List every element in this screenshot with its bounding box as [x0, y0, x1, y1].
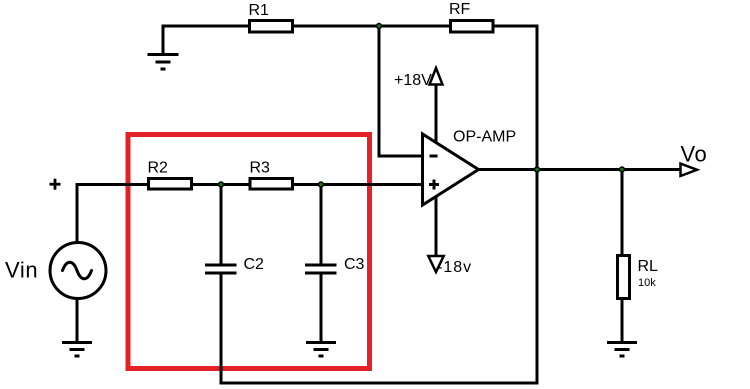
svg-text:RF: RF: [449, 1, 471, 18]
wire Vin top vertical: [76, 183, 79, 243]
wire top rail left: ground to R1: [163, 25, 249, 28]
wire node A down to C2 top plate: [220, 185, 223, 266]
svg-text:R2: R2: [148, 160, 169, 177]
wire C3 bottom to ground: [320, 274, 323, 342]
op-amp non-inverting input plus symbol: [429, 180, 439, 190]
wire positive supply vertical: [435, 84, 438, 143]
resistor R3: [250, 179, 293, 190]
wire input plus-corner to R2: [77, 183, 149, 186]
node RL junction: [620, 167, 625, 172]
wire RL bottom to ground: [621, 299, 624, 342]
svg-text:C2: C2: [244, 256, 265, 273]
resistor RL: [618, 256, 630, 299]
op-amp inverting input minus symbol: [430, 155, 438, 158]
svg-text:-18v: -18v: [437, 259, 472, 276]
ground (below RL): [607, 341, 637, 358]
svg-text:R3: R3: [250, 160, 271, 177]
resistor RF: [451, 21, 494, 33]
wire R3 to op-amp plus input through node B: [292, 183, 424, 186]
svg-text:RL: RL: [638, 258, 659, 275]
wire Vin bottom to ground: [76, 298, 79, 342]
resistor R2: [149, 179, 192, 190]
ground (below Vin source): [62, 341, 92, 358]
capacitor C2: [205, 264, 237, 275]
capacitor C3: [305, 264, 337, 275]
resistor R1: [250, 21, 293, 33]
wire negative supply vertical: [435, 196, 438, 257]
ground (below C3): [306, 341, 336, 358]
negative supply arrowhead: [428, 256, 443, 272]
wire RF to top-right corner, down right side, bottom run, up to C2: [221, 26, 537, 383]
wire R1 to RF through node: [293, 25, 450, 28]
wire node B down to C3 top plate: [320, 185, 323, 266]
source Vin sine symbol: [63, 262, 92, 279]
svg-text:+18V: +18V: [394, 72, 432, 89]
wire feedback node down to inverting input: [379, 26, 424, 156]
node R1-RF-feedback junction: [377, 24, 382, 29]
label plus at input: [50, 179, 61, 190]
positive supply arrowhead: [430, 68, 443, 85]
node output-feedback junction: [535, 167, 540, 172]
svg-text:R1: R1: [249, 2, 270, 19]
node A R2-R3-C2 junction: [219, 182, 224, 187]
node B R3-C3 junction: [319, 182, 324, 187]
svg-text:Vo: Vo: [681, 142, 708, 167]
svg-text:10k: 10k: [638, 277, 656, 289]
ground (top-left, at R1 input): [148, 53, 179, 71]
wire ground stub top-left: [162, 25, 165, 55]
svg-text:OP-AMP: OP-AMP: [453, 129, 516, 146]
wire R2 to R3 through node A: [191, 183, 250, 186]
svg-text:Vin: Vin: [5, 258, 38, 283]
red highlight box around R2 R3 C2 C3 filter section: [128, 135, 370, 369]
output Vo arrowhead: [681, 164, 698, 176]
svg-text:C3: C3: [344, 256, 365, 273]
wire output node down to RL: [621, 170, 624, 257]
source Vin circle: [50, 243, 106, 299]
op-amp U1 triangle: [423, 134, 479, 205]
wire op-amp output to Vo arrow: [477, 168, 681, 171]
